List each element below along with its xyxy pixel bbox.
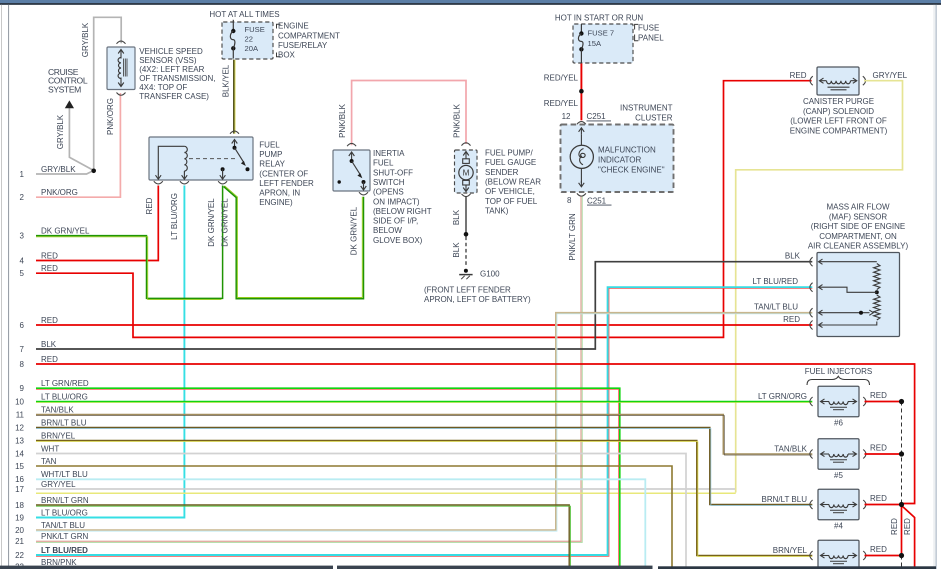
MAF pin 1 BLK [810, 257, 813, 266]
fuse 22 20A engine compartment fuse box [222, 22, 273, 59]
canister purge CANP solenoid [810, 76, 813, 85]
svg-text:HOT AT ALL TIMES: HOT AT ALL TIMES [209, 10, 279, 19]
svg-text:DK GRN/YEL: DK GRN/YEL [41, 226, 90, 235]
svg-text:INSTRUMENT: INSTRUMENT [620, 104, 673, 113]
svg-text:PNK/BLK: PNK/BLK [452, 103, 461, 137]
wire BRN/LT GRN node 18 [36, 505, 569, 566]
wire RED node 5 to CANP solenoid [36, 81, 812, 338]
window top bar [0, 0, 941, 3]
MAF thermistor resistor [874, 264, 880, 290]
svg-text:PNK/ORG: PNK/ORG [41, 188, 78, 197]
svg-text:GRY/BLK: GRY/BLK [41, 165, 76, 174]
svg-text:PNK/BLK: PNK/BLK [338, 103, 347, 137]
svg-text:SENSOR (VSS): SENSOR (VSS) [139, 56, 197, 65]
wire LT BLU/ORG node 10 to injector 6 [36, 401, 812, 403]
svg-text:BLK/YEL: BLK/YEL [221, 64, 230, 97]
fuel pump / fuel gauge sender [455, 150, 478, 193]
svg-text:LT BLU/RED: LT BLU/RED [41, 546, 88, 555]
injector bus junction dots [899, 399, 904, 404]
svg-text:RED: RED [41, 355, 58, 364]
wire TAN/LT BLU node 20 to MAF [36, 313, 812, 530]
fuel injector #5 [818, 439, 859, 469]
window left border [1, 5, 2, 569]
svg-text:COMPARTMENT: COMPARTMENT [278, 31, 340, 40]
svg-text:15A: 15A [588, 39, 602, 48]
svg-text:18: 18 [15, 501, 24, 510]
svg-text:C251: C251 [587, 112, 607, 121]
svg-text:19: 19 [15, 513, 24, 522]
svg-text:M: M [463, 169, 470, 178]
relay coil [158, 146, 184, 174]
wire BLK node 7 to MAF [36, 262, 812, 349]
wire GRY/YEL CANP to node 17 [736, 81, 903, 493]
wire RED injector #6 stub [865, 401, 902, 403]
svg-text:BRN/YEL: BRN/YEL [41, 431, 76, 440]
wire RED relay to node 4 [36, 186, 158, 261]
svg-text:3: 3 [20, 232, 25, 241]
relay actuation dashed link [189, 158, 237, 160]
svg-text:TRANSFER CASE): TRANSFER CASE) [139, 92, 209, 101]
svg-text:4X4: TOP OF: 4X4: TOP OF [139, 83, 187, 92]
wire RED node 6 to MAF [36, 324, 812, 326]
svg-text:12: 12 [15, 423, 24, 432]
vehicle speed sensor VSS [107, 47, 135, 90]
svg-text:BLK: BLK [452, 209, 461, 225]
svg-text:#6: #6 [834, 419, 843, 428]
MAF potentiometer resistor [874, 295, 880, 320]
svg-text:FUEL PUMP/: FUEL PUMP/ [485, 149, 533, 158]
svg-text:DK GRN/YEL: DK GRN/YEL [207, 198, 216, 247]
svg-text:BRN/YEL: BRN/YEL [773, 546, 808, 555]
svg-text:#4: #4 [834, 522, 843, 531]
svg-text:SYSTEM: SYSTEM [48, 85, 81, 95]
svg-text:ENGINE: ENGINE [278, 22, 309, 31]
svg-text:RED: RED [41, 251, 58, 260]
svg-text:(LOWER LEFT FRONT OF: (LOWER LEFT FRONT OF [790, 117, 887, 126]
svg-text:RED/YEL: RED/YEL [544, 99, 579, 108]
svg-text:FUSE 7: FUSE 7 [588, 28, 615, 37]
svg-text:TAN/BLK: TAN/BLK [41, 405, 74, 414]
svg-text:#5: #5 [834, 471, 843, 480]
svg-text:21: 21 [15, 537, 24, 546]
svg-text:TAN: TAN [41, 457, 57, 466]
wire PNK/BLK inertia switch to fuel sender [352, 81, 466, 146]
svg-text:GRY/YEL: GRY/YEL [873, 71, 908, 80]
svg-text:16: 16 [15, 475, 24, 484]
wire BLK sender to ground G100 [465, 197, 467, 234]
wire BRN/YEL node 13 to injector 3 [36, 441, 812, 556]
svg-text:PANEL: PANEL [638, 34, 664, 43]
svg-text:(CENTER OF: (CENTER OF [259, 169, 308, 178]
svg-text:RED: RED [783, 315, 800, 324]
svg-text:RELAY: RELAY [259, 160, 285, 169]
svg-text:8: 8 [20, 360, 25, 369]
svg-text:FUSE/RELAY: FUSE/RELAY [278, 41, 328, 50]
fuse 7 15A fuse panel box [573, 24, 633, 63]
wire WHT/LT BLU node 16 [36, 479, 645, 569]
svg-text:22: 22 [15, 551, 24, 560]
svg-text:VEHICLE SPEED: VEHICLE SPEED [139, 47, 203, 56]
wire GRY/BLK from VSS to node 1 [94, 17, 122, 170]
wire RED/YEL fuse 7 to instrument cluster [580, 64, 582, 121]
svg-text:"CHECK ENGINE": "CHECK ENGINE" [598, 166, 665, 175]
svg-text:FUEL INJECTORS: FUEL INJECTORS [805, 367, 873, 376]
svg-text:12: 12 [562, 112, 571, 121]
svg-text:TAN/LT BLU: TAN/LT BLU [41, 521, 85, 530]
svg-text:(OPENS: (OPENS [373, 188, 404, 197]
svg-text:LT BLU/ORG: LT BLU/ORG [41, 508, 88, 517]
svg-text:7: 7 [20, 345, 25, 354]
fuel injectors brace [807, 376, 870, 385]
injector supply dashed bus [901, 402, 903, 569]
svg-text:DK GRN/YEL: DK GRN/YEL [349, 206, 358, 255]
svg-text:11: 11 [16, 410, 25, 419]
svg-text:DK GRN/YEL: DK GRN/YEL [221, 198, 230, 247]
svg-text:CANISTER PURGE: CANISTER PURGE [803, 97, 874, 106]
svg-text:1: 1 [20, 170, 25, 179]
svg-text:6: 6 [20, 321, 25, 330]
svg-text:ENGINE): ENGINE) [259, 198, 293, 207]
window right border [933, 5, 936, 569]
svg-text:INDICATOR: INDICATOR [598, 156, 641, 165]
node junction dot at node 1 [91, 169, 96, 174]
svg-text:20A: 20A [245, 44, 259, 53]
svg-text:RED: RED [870, 494, 887, 503]
svg-text:SIDE OF I/P,: SIDE OF I/P, [373, 217, 418, 226]
svg-text:PUMP: PUMP [259, 150, 282, 159]
svg-text:RED: RED [41, 316, 58, 325]
svg-text:SWITCH: SWITCH [373, 178, 405, 187]
svg-text:OF TRANSMISSION,: OF TRANSMISSION, [139, 74, 215, 83]
svg-text:9: 9 [20, 384, 25, 393]
inertia fuel shut-off switch [333, 150, 370, 191]
wire TAN/BLK node 11 to injector 5 [36, 415, 812, 455]
svg-text:RED: RED [145, 197, 154, 214]
svg-text:GRY/BLK: GRY/BLK [56, 114, 65, 149]
svg-text:APRON, IN: APRON, IN [259, 189, 300, 198]
svg-text:MASS AIR FLOW: MASS AIR FLOW [826, 203, 890, 212]
svg-text:PNK/ORG: PNK/ORG [106, 98, 115, 135]
svg-text:TAN/LT BLU: TAN/LT BLU [754, 303, 798, 312]
svg-text:MALFUNCTION: MALFUNCTION [598, 146, 656, 155]
svg-text:(BELOW RIGHT: (BELOW RIGHT [373, 207, 432, 216]
svg-text:CLUSTER: CLUSTER [635, 113, 673, 122]
svg-text:SHUT-OFF: SHUT-OFF [373, 168, 413, 177]
svg-text:COMPARTMENT, ON: COMPARTMENT, ON [819, 232, 897, 241]
svg-text:TAN/BLK: TAN/BLK [774, 445, 807, 454]
svg-text:TOP OF FUEL: TOP OF FUEL [485, 197, 538, 206]
svg-text:(CANP) SOLENOID: (CANP) SOLENOID [803, 107, 874, 116]
svg-text:BLK: BLK [785, 252, 801, 261]
svg-text:PNK/LT GRN: PNK/LT GRN [568, 213, 577, 260]
svg-text:22: 22 [245, 34, 253, 43]
svg-text:(MAF) SENSOR: (MAF) SENSOR [829, 212, 887, 221]
svg-text:5: 5 [20, 269, 25, 278]
svg-text:4: 4 [20, 256, 25, 265]
MAF pin 4 RED [810, 321, 813, 330]
svg-text:OF VEHICLE,: OF VEHICLE, [485, 187, 535, 196]
svg-text:GLOVE BOX): GLOVE BOX) [373, 236, 423, 245]
malfunction indicator lamp [580, 128, 582, 135]
svg-text:LT GRN/ORG: LT GRN/ORG [758, 392, 807, 401]
svg-text:17: 17 [15, 485, 24, 494]
fuel injector #3 [818, 540, 859, 569]
svg-text:LEFT FENDER: LEFT FENDER [259, 179, 314, 188]
wire PNK/ORG from VSS to node 2 [36, 93, 120, 197]
svg-text:HOT IN START OR RUN: HOT IN START OR RUN [555, 13, 644, 22]
wire DK GRN/YEL relay to inertia switch [224, 187, 364, 299]
wire LT BLU/RED node 22 to MAF [36, 287, 812, 555]
svg-text:WHT/LT BLU: WHT/LT BLU [41, 470, 88, 479]
svg-text:G100: G100 [480, 269, 500, 278]
wire BLK/YEL fuse 22 to fuel pump relay [233, 60, 235, 134]
svg-text:BRN/LT GRN: BRN/LT GRN [41, 496, 89, 505]
connector C251 pin 8 [577, 193, 586, 196]
svg-text:PNK/LT GRN: PNK/LT GRN [41, 532, 88, 541]
cruise control arrow [65, 100, 74, 108]
svg-text:LT GRN/RED: LT GRN/RED [41, 379, 89, 388]
wire GRY/YEL horizontal pair [36, 488, 735, 490]
svg-text:13: 13 [15, 436, 24, 445]
svg-text:14: 14 [15, 449, 24, 458]
svg-text:BOX: BOX [278, 51, 296, 60]
wire WHT node 14 [36, 454, 686, 569]
wire GRY/BLK cruise control branch [69, 108, 93, 171]
svg-text:FUSE: FUSE [245, 25, 265, 34]
wire RED node 8 to injector bus [36, 364, 915, 504]
svg-text:GRY/BLK: GRY/BLK [81, 22, 90, 57]
svg-text:15: 15 [15, 462, 24, 471]
svg-text:10: 10 [15, 397, 24, 406]
svg-text:ON IMPACT): ON IMPACT) [373, 197, 420, 206]
svg-text:(FRONT LEFT FENDER: (FRONT LEFT FENDER [424, 286, 511, 295]
fuel pump relay U-relay [149, 137, 253, 180]
svg-text:(BELOW REAR: (BELOW REAR [485, 178, 541, 187]
svg-text:TANK): TANK) [485, 206, 509, 215]
svg-text:2: 2 [20, 193, 25, 202]
svg-text:RED: RED [41, 264, 58, 273]
wire LT BLU/ORG relay to node 19 [36, 186, 184, 518]
svg-text:SENDER: SENDER [485, 168, 519, 177]
splice dot on RED/YEL [579, 89, 584, 94]
svg-text:FUEL: FUEL [259, 141, 280, 150]
svg-text:APRON, LEFT OF BATTERY): APRON, LEFT OF BATTERY) [424, 295, 531, 304]
callout marks fuse panel [635, 24, 639, 29]
wire BRN/LT BLU node 12 to injector 4 [36, 428, 812, 505]
svg-text:AIR CLEANER ASSEMBLY): AIR CLEANER ASSEMBLY) [808, 242, 909, 251]
svg-text:LT BLU/ORG: LT BLU/ORG [170, 193, 179, 240]
svg-text:WHT: WHT [41, 444, 59, 453]
svg-text:INERTIA: INERTIA [373, 149, 405, 158]
wire RED injector #5 stub [865, 453, 902, 455]
svg-text:RED: RED [870, 545, 887, 554]
svg-text:LT BLU/RED: LT BLU/RED [753, 277, 799, 286]
svg-text:20: 20 [15, 526, 24, 535]
svg-text:BRN/LT BLU: BRN/LT BLU [762, 495, 808, 504]
svg-text:(RIGHT SIDE OF ENGINE: (RIGHT SIDE OF ENGINE [811, 222, 906, 231]
wire DK GRN/YEL relay to node 3 [36, 186, 223, 299]
svg-text:GRY/YEL: GRY/YEL [41, 480, 76, 489]
MAF pin 2 LT BLU/RED [810, 283, 813, 292]
svg-text:BRN/PNK: BRN/PNK [41, 558, 77, 567]
svg-text:ENGINE COMPARTMENT): ENGINE COMPARTMENT) [790, 126, 888, 135]
svg-text:FUEL: FUEL [373, 159, 394, 168]
svg-text:LT BLU/ORG: LT BLU/ORG [41, 392, 88, 401]
svg-text:RED: RED [870, 391, 887, 400]
wire RED injector #4 stub [865, 504, 902, 506]
wire LT GRN/RED node 9 [36, 388, 620, 569]
svg-text:8: 8 [567, 196, 572, 205]
svg-text:BLK: BLK [41, 340, 57, 349]
wire PNK/LT GRN cluster to node 21 [36, 197, 581, 542]
svg-text:RED: RED [790, 71, 807, 80]
svg-text:FUEL GAUGE: FUEL GAUGE [485, 158, 536, 167]
svg-text:RED/YEL: RED/YEL [544, 74, 579, 83]
svg-text:BELOW: BELOW [373, 226, 402, 235]
callout marks engine compartment box [277, 24, 281, 28]
fuel injector #6 [818, 386, 859, 416]
MAF pin 3 TAN/LT BLU wiper [810, 308, 813, 317]
svg-text:BRN/LT BLU: BRN/LT BLU [41, 418, 87, 427]
ground G100 [464, 269, 468, 273]
wire RED injector #3 stub [865, 555, 902, 557]
svg-text:RED: RED [870, 444, 887, 453]
svg-text:BLK: BLK [452, 242, 461, 258]
svg-text:C251: C251 [587, 196, 607, 205]
fuel injector #4 [818, 489, 859, 519]
svg-text:FUSE: FUSE [638, 23, 659, 32]
svg-text:(4X2: LEFT REAR: (4X2: LEFT REAR [139, 65, 204, 74]
relay switch contacts [233, 146, 237, 150]
svg-text:RED: RED [903, 518, 912, 535]
wire TAN node 15 [36, 466, 672, 569]
window bottom bar [0, 566, 333, 569]
svg-text:RED: RED [890, 518, 899, 535]
